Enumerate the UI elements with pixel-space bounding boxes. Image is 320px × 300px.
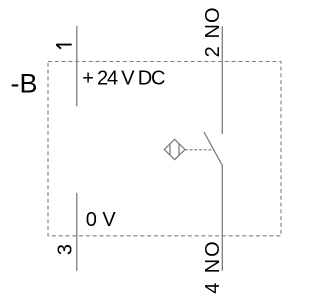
proximity sensor symbol (diamond) [164, 139, 185, 159]
terminal 4 wire [221, 164, 223, 271]
svg-text:0 V: 0 V [86, 209, 117, 231]
terminal 1 wire [76, 26, 78, 106]
svg-text:+ 24 V DC: + 24 V DC [82, 68, 165, 90]
pin number 1 [56, 45, 72, 49]
terminal 3 wire [76, 193, 78, 271]
proximity sensor inner line right [178, 144, 180, 156]
NO contact blade [204, 132, 222, 164]
svg-text:-B: -B [11, 68, 38, 98]
svg-text:3: 3 [55, 244, 77, 255]
terminal 2 wire [221, 26, 223, 134]
proximity sensor inner line left [169, 144, 171, 155]
mechanical link (dashed) [185, 149, 214, 151]
svg-text:4 NO: 4 NO [202, 241, 224, 294]
component enclosure (dashed box) [48, 62, 281, 236]
svg-text:2 NO: 2 NO [202, 7, 224, 57]
